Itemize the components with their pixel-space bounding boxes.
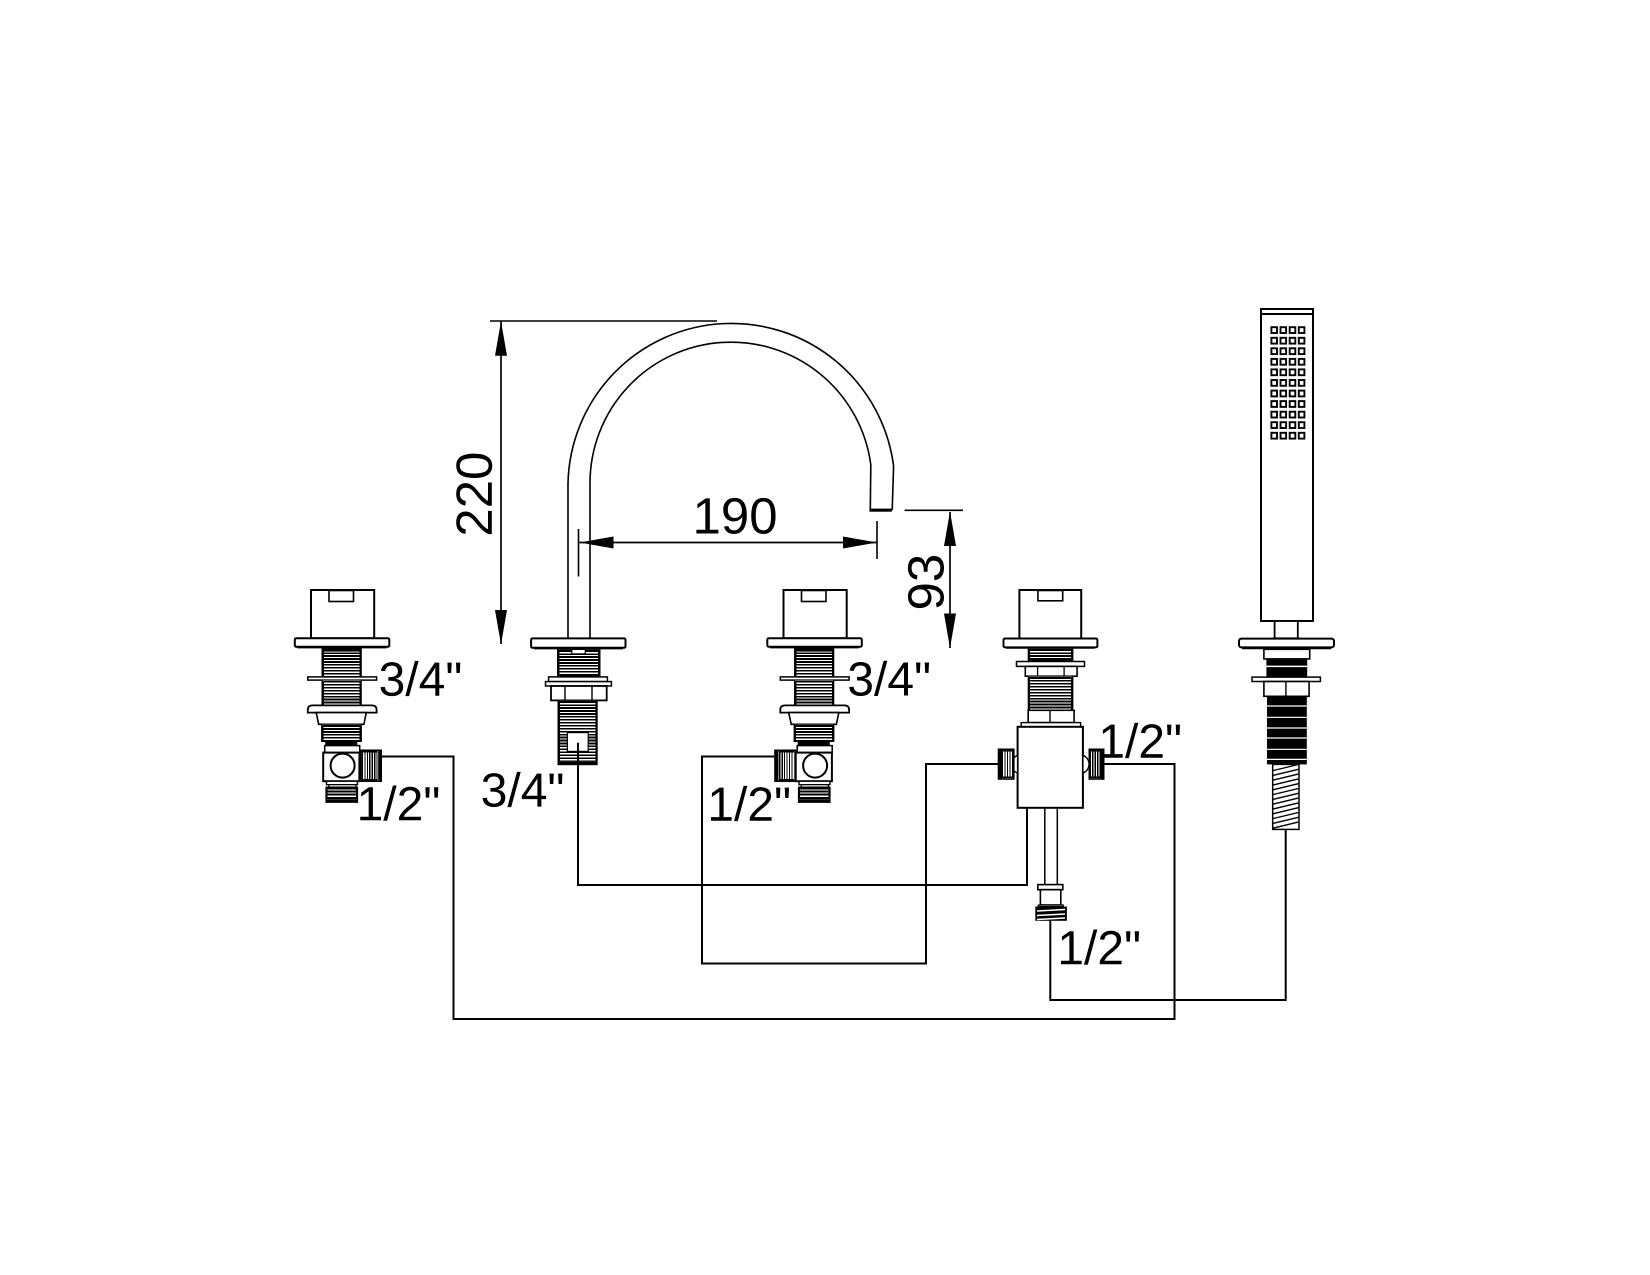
spout lower threaded shank 3/4 (558, 700, 597, 764)
valve V2 (cold) mid threaded shank (795, 680, 834, 705)
dim 93 extension line (905, 509, 963, 511)
dim 220 line (500, 321, 502, 644)
hand shower hex nut (1264, 682, 1309, 697)
diverter deck flange (1004, 639, 1098, 649)
valve V1 (hot) upper threaded shank 3/4 (322, 648, 361, 677)
valve V2 (cold) deck flange (767, 638, 862, 647)
hand shower hose coil (1273, 764, 1299, 829)
diverter hex nut (1025, 666, 1077, 676)
valve V2 (cold) body port circle (803, 754, 827, 778)
valve V2 (cold) bottom washer (801, 785, 828, 787)
valve V1 (hot) bottom washer (329, 785, 356, 787)
valve V2 (cold) upper threaded shank 3/4 (795, 648, 834, 677)
label V2 1/2 (711, 786, 789, 821)
hand shower threaded shank (black) (1267, 697, 1307, 765)
valve V1 (hot) lower threaded shank (322, 724, 362, 745)
diverter lower threads (1028, 676, 1073, 710)
valve V1 (hot) handle (311, 590, 374, 638)
valve V2 (cold) bottom outlet threads 1/2 (798, 787, 830, 802)
valve V2 (cold) locknut washer (780, 677, 849, 680)
valve V2 (cold) bottom step (799, 781, 830, 785)
diverter right outlet 1/2 (1083, 749, 1104, 779)
diverter hose coupling (1035, 907, 1067, 921)
diverter bottom tube (1045, 808, 1058, 885)
hose diverter bottom to hand shower (1050, 829, 1285, 1000)
valve V1 (hot) body neck (325, 746, 360, 753)
dim 190 extension lines (578, 529, 580, 577)
spout outlet tip (869, 509, 891, 512)
hose spout to diverter bottom (578, 743, 1027, 885)
hose valve V1 to diverter right inlet (381, 757, 1174, 1020)
diverter left outlet 1/2 (999, 749, 1018, 779)
dim 190 text (696, 498, 775, 534)
valve V1 (hot) bottom step (327, 781, 358, 785)
diverter top plate (1021, 723, 1080, 727)
valve V2 (cold) handle (784, 590, 847, 638)
label diverter right 1/2 (1102, 723, 1180, 758)
valve V1 (hot) body port circle (331, 754, 355, 778)
diverter washer (1017, 662, 1085, 667)
valve V1 (hot) valve body (323, 753, 359, 782)
diverter connector band (1028, 710, 1074, 722)
spout arc tube (568, 323, 894, 638)
hand shower collar (1264, 649, 1310, 659)
spout upper threaded shank (558, 649, 601, 677)
diverter handle (1019, 590, 1081, 639)
valve V1 (hot) neck (316, 713, 366, 725)
spout washer plates (549, 677, 608, 682)
hand shower neck (1275, 621, 1298, 638)
hose valve V2 to diverter left inlet (702, 757, 999, 964)
hand shower spray face nozzles (1271, 327, 1304, 438)
valve V1 (hot) locknut washer (308, 677, 377, 680)
dim 93 text (908, 556, 944, 608)
label V2 3/4 (849, 661, 929, 696)
valve V1 (hot) dome flange (308, 705, 377, 712)
valve V2 (cold) valve body (796, 753, 832, 782)
valve V1 (hot) mid threaded shank (322, 680, 361, 705)
dim 93 arrows (944, 512, 956, 547)
valve V1 (hot) bottom outlet threads 1/2 (326, 787, 358, 802)
dim 190 arrows (580, 537, 614, 549)
hand shower wand (1261, 309, 1313, 621)
valve V2 (cold) neck (789, 713, 839, 725)
valve V2 side outlet 1/2 (775, 750, 796, 781)
valve V2 (cold) body neck (797, 746, 832, 753)
diverter body (1018, 727, 1083, 808)
valve V2 (cold) lower threaded shank (794, 724, 834, 745)
dim 220 text (456, 454, 492, 535)
dim 220 arrows (495, 321, 507, 355)
diverter upper threads (1028, 648, 1073, 661)
spout deck flange (531, 638, 625, 648)
hand shower washer (1252, 677, 1320, 681)
spout hex locknut (551, 686, 607, 700)
dim 190 line (580, 542, 878, 544)
label V1 1/2 (360, 786, 438, 821)
label diverter bottom 1/2 (1061, 930, 1139, 965)
valve V2 (cold) dome flange (780, 705, 849, 712)
diverter hose connector (1038, 885, 1063, 890)
hand shower black band (1266, 659, 1307, 677)
dim 93 line (949, 512, 951, 648)
label V1 3/4 (380, 661, 460, 696)
label spout 3/4 (483, 772, 563, 807)
valve V1 (hot) deck flange (295, 638, 390, 647)
valve V1 side outlet 1/2 (361, 750, 382, 781)
dim 220 extension line top (490, 320, 717, 322)
hand shower escutcheon (1239, 639, 1334, 649)
